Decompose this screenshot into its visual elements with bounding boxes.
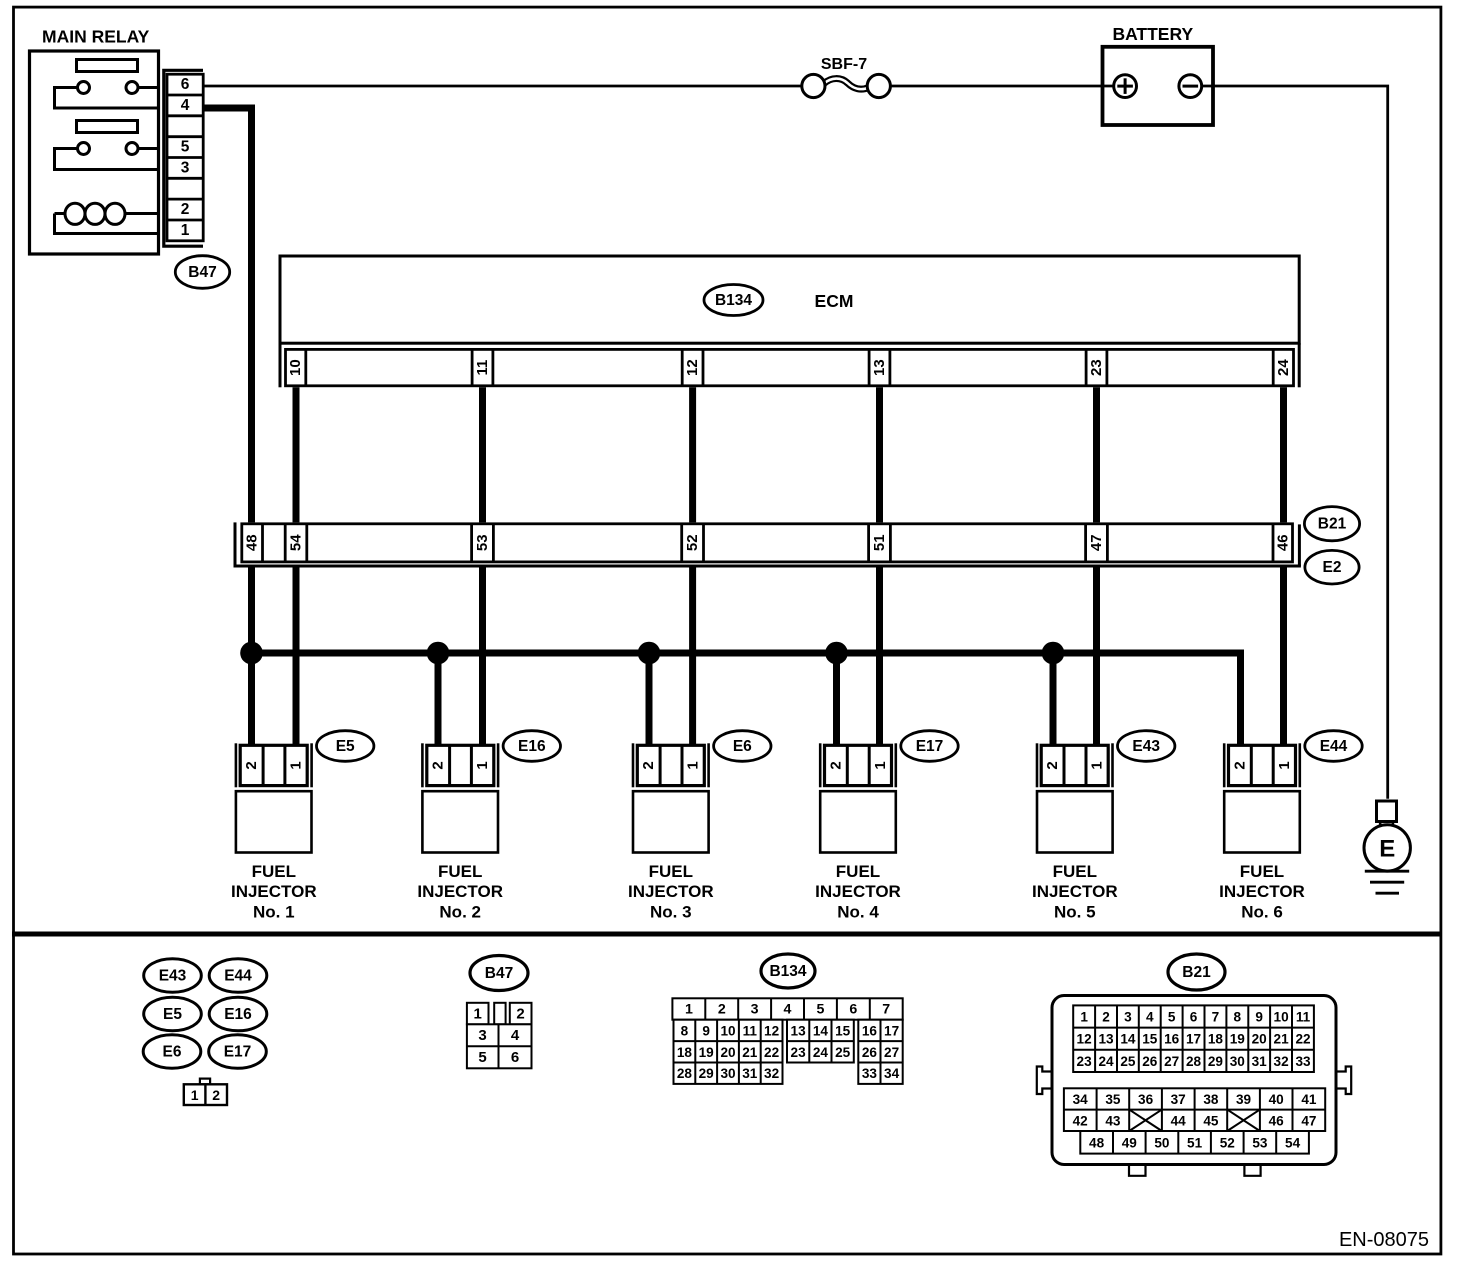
fuel injector No.3 label bbox=[628, 862, 714, 922]
svg-text:1: 1 bbox=[1276, 761, 1293, 769]
B134 pinout grid bbox=[672, 998, 902, 1084]
svg-text:2: 2 bbox=[827, 761, 844, 769]
svg-text:11: 11 bbox=[474, 360, 491, 376]
svg-text:1: 1 bbox=[181, 222, 190, 239]
wire from connector pin 47 to injector No.5 pin 1 bbox=[1093, 568, 1100, 746]
svg-text:19: 19 bbox=[699, 1045, 715, 1060]
svg-text:No. 1: No. 1 bbox=[253, 903, 295, 922]
svg-text:5: 5 bbox=[1168, 1010, 1176, 1025]
legend oval E5 bbox=[144, 997, 202, 1031]
wire from connector pin 52 to injector No.3 pin 1 bbox=[689, 568, 696, 746]
legend oval E43 bbox=[144, 959, 202, 993]
oval label B21 bbox=[1304, 507, 1359, 541]
legend oval B47 bbox=[470, 956, 528, 991]
oval label E2 bbox=[1305, 550, 1359, 584]
svg-text:FUEL: FUEL bbox=[252, 862, 296, 881]
junction dot 3 bbox=[638, 642, 661, 665]
svg-text:6: 6 bbox=[849, 1002, 857, 1018]
svg-text:15: 15 bbox=[835, 1023, 851, 1038]
svg-text:B134: B134 bbox=[715, 292, 752, 309]
svg-text:24: 24 bbox=[1098, 1054, 1114, 1069]
B21 bottom tab 2 bbox=[1244, 1165, 1260, 1176]
svg-text:INJECTOR: INJECTOR bbox=[231, 882, 317, 901]
svg-text:42: 42 bbox=[1073, 1113, 1089, 1128]
svg-text:46: 46 bbox=[1269, 1113, 1285, 1128]
svg-text:E2: E2 bbox=[1323, 559, 1342, 576]
svg-text:12: 12 bbox=[684, 359, 701, 376]
svg-text:4: 4 bbox=[784, 1002, 792, 1018]
svg-text:24: 24 bbox=[1275, 359, 1292, 376]
battery box bbox=[1103, 47, 1214, 125]
svg-text:52: 52 bbox=[684, 534, 701, 551]
fuel injector No.4 body bbox=[820, 791, 896, 852]
fuel injector No.1 label bbox=[231, 862, 317, 922]
svg-text:48: 48 bbox=[1089, 1135, 1105, 1150]
ECM connector row side walls bbox=[279, 343, 282, 387]
svg-text:43: 43 bbox=[1105, 1113, 1121, 1128]
svg-text:53: 53 bbox=[474, 534, 491, 551]
relay coil bbox=[55, 203, 161, 233]
svg-text:31: 31 bbox=[1252, 1054, 1268, 1069]
svg-text:25: 25 bbox=[835, 1045, 851, 1060]
fuel injector No.6 connector side walls bbox=[1224, 743, 1300, 787]
ECM box bbox=[280, 256, 1299, 343]
svg-text:INJECTOR: INJECTOR bbox=[417, 882, 503, 901]
wire from fuse to battery bbox=[890, 85, 1113, 88]
B47 pinout grid bbox=[467, 1003, 532, 1069]
wire from ECM pin 13 down bbox=[876, 387, 883, 522]
ECM pin 10 cell bbox=[304, 349, 307, 385]
svg-text:FUEL: FUEL bbox=[1240, 862, 1284, 881]
legend oval E16 bbox=[209, 997, 267, 1031]
svg-text:INJECTOR: INJECTOR bbox=[628, 882, 714, 901]
fuel injector No.1 connector side walls bbox=[236, 743, 312, 787]
svg-text:INJECTOR: INJECTOR bbox=[1219, 882, 1305, 901]
svg-text:6: 6 bbox=[181, 76, 190, 93]
svg-text:15: 15 bbox=[1142, 1032, 1158, 1047]
svg-text:B47: B47 bbox=[188, 264, 216, 281]
fuel injector No.4 label bbox=[815, 862, 901, 922]
svg-text:29: 29 bbox=[1208, 1054, 1224, 1069]
svg-text:16: 16 bbox=[862, 1023, 878, 1038]
svg-text:54: 54 bbox=[288, 534, 305, 551]
svg-text:3: 3 bbox=[478, 1027, 486, 1044]
svg-text:3: 3 bbox=[1124, 1010, 1132, 1025]
svg-text:52: 52 bbox=[1220, 1135, 1236, 1150]
injector connector pinout tab bbox=[200, 1079, 210, 1085]
relay contact 1 terminal circles bbox=[78, 82, 90, 94]
oval label E44 bbox=[1305, 731, 1362, 762]
svg-text:1: 1 bbox=[1089, 761, 1106, 769]
svg-text:30: 30 bbox=[1230, 1054, 1245, 1069]
oval label E5 bbox=[317, 731, 374, 762]
svg-text:22: 22 bbox=[1295, 1032, 1311, 1047]
relay contact 1 wiring bbox=[55, 88, 161, 109]
fuel injector No.1 pin box bbox=[240, 745, 307, 785]
fuel injector No.3 body bbox=[633, 791, 709, 852]
svg-text:22: 22 bbox=[764, 1045, 780, 1060]
fuel injector No.2 pin box bbox=[427, 745, 494, 785]
svg-text:8: 8 bbox=[681, 1023, 689, 1038]
svg-text:34: 34 bbox=[884, 1066, 900, 1081]
svg-text:B47: B47 bbox=[485, 965, 513, 982]
oval label E43 bbox=[1118, 731, 1175, 762]
wire from connector pin 48 to bus junction and injector No.1 pin 2 bbox=[248, 568, 255, 746]
bus drop wire to injector No.3 pin 2 bbox=[646, 653, 653, 745]
svg-text:18: 18 bbox=[1208, 1032, 1224, 1047]
wire from connector pin 46 to injector No.6 pin 1 bbox=[1280, 568, 1287, 746]
svg-text:13: 13 bbox=[1098, 1032, 1114, 1047]
svg-text:2: 2 bbox=[640, 761, 657, 769]
svg-text:2: 2 bbox=[1231, 761, 1248, 769]
svg-text:23: 23 bbox=[1077, 1054, 1093, 1069]
svg-text:B21: B21 bbox=[1182, 964, 1211, 981]
svg-text:38: 38 bbox=[1203, 1092, 1219, 1107]
wire from connector pin 51 to injector No.4 pin 1 bbox=[876, 568, 883, 746]
svg-text:2: 2 bbox=[718, 1002, 726, 1018]
fuel injector No.3 connector side walls bbox=[633, 743, 709, 787]
svg-text:E17: E17 bbox=[916, 738, 944, 755]
svg-text:No. 3: No. 3 bbox=[650, 903, 692, 922]
legend oval E44 bbox=[209, 959, 267, 993]
svg-text:30: 30 bbox=[720, 1066, 735, 1081]
oval label E16 bbox=[503, 731, 560, 762]
B21 right tab bbox=[1336, 1067, 1351, 1095]
svg-text:53: 53 bbox=[1252, 1135, 1268, 1150]
svg-text:E6: E6 bbox=[163, 1044, 182, 1061]
connector pin 52 cell bbox=[680, 524, 683, 562]
svg-text:No. 6: No. 6 bbox=[1241, 903, 1283, 922]
ground circle E bbox=[1364, 825, 1410, 871]
svg-text:E5: E5 bbox=[336, 738, 355, 755]
svg-text:1: 1 bbox=[685, 1002, 693, 1018]
wire from relay pin 6 to fuse SBF-7 bbox=[203, 85, 802, 88]
ECM pin 13 cell bbox=[868, 349, 871, 385]
wire from connector pin 53 to injector No.2 pin 1 bbox=[479, 568, 486, 746]
svg-text:4: 4 bbox=[511, 1027, 520, 1044]
svg-text:32: 32 bbox=[764, 1066, 780, 1081]
ECM connector row box bbox=[286, 349, 1294, 385]
svg-text:21: 21 bbox=[1274, 1032, 1290, 1047]
fuel injector No.1 body bbox=[236, 791, 312, 852]
svg-text:3: 3 bbox=[181, 159, 190, 176]
svg-text:1: 1 bbox=[685, 761, 702, 769]
svg-text:45: 45 bbox=[1203, 1113, 1219, 1128]
relay contact 2 wiring bbox=[55, 149, 161, 170]
connector pin 48 cell bbox=[261, 524, 264, 562]
svg-text:E5: E5 bbox=[163, 1006, 182, 1023]
fuel injector No.3 pin box bbox=[637, 745, 704, 785]
svg-text:6: 6 bbox=[1190, 1010, 1198, 1025]
svg-text:51: 51 bbox=[1187, 1135, 1203, 1150]
junction dot 1 bbox=[240, 642, 263, 665]
svg-text:E: E bbox=[1379, 836, 1395, 863]
svg-text:13: 13 bbox=[871, 359, 888, 376]
fuel injector No.4 pin box bbox=[825, 745, 892, 785]
svg-text:1: 1 bbox=[474, 1006, 482, 1023]
svg-text:4: 4 bbox=[1146, 1010, 1154, 1025]
svg-text:E6: E6 bbox=[733, 738, 752, 755]
svg-text:27: 27 bbox=[1164, 1054, 1179, 1069]
fuel injector No.5 connector side walls bbox=[1037, 743, 1113, 787]
ground neck lines bbox=[1379, 822, 1382, 827]
svg-text:No. 2: No. 2 bbox=[439, 903, 481, 922]
wire from ECM pin 12 down bbox=[689, 387, 696, 522]
svg-text:41: 41 bbox=[1301, 1092, 1317, 1107]
wire from ECM pin 24 down bbox=[1280, 387, 1287, 522]
svg-text:8: 8 bbox=[1234, 1010, 1242, 1025]
thick wire from relay pin 4 down to connector pin 48 bbox=[203, 108, 251, 522]
fuel injector No.6 pin box bbox=[1229, 745, 1296, 785]
svg-text:E44: E44 bbox=[224, 968, 252, 985]
oval label B134 bbox=[704, 285, 763, 316]
svg-text:4: 4 bbox=[181, 97, 190, 114]
svg-text:19: 19 bbox=[1230, 1032, 1246, 1047]
svg-text:36: 36 bbox=[1138, 1092, 1154, 1107]
fuel injector No.6 body bbox=[1224, 791, 1300, 852]
B21 pinout grid bottom bbox=[1080, 1131, 1309, 1154]
svg-text:33: 33 bbox=[1295, 1054, 1311, 1069]
svg-text:E16: E16 bbox=[518, 738, 546, 755]
connector pin 51 cell bbox=[867, 524, 870, 562]
connector pin 47 cell bbox=[1084, 524, 1087, 562]
junction dot 5 bbox=[1042, 642, 1065, 665]
svg-text:28: 28 bbox=[677, 1066, 693, 1081]
relay contact bar 2 bbox=[77, 121, 138, 133]
svg-text:23: 23 bbox=[1088, 359, 1105, 376]
svg-text:47: 47 bbox=[1301, 1113, 1316, 1128]
wire from battery to ground drop bbox=[1202, 86, 1388, 799]
svg-text:10: 10 bbox=[1274, 1010, 1289, 1025]
svg-text:12: 12 bbox=[764, 1023, 780, 1038]
svg-text:2: 2 bbox=[181, 201, 190, 218]
svg-text:24: 24 bbox=[813, 1045, 829, 1060]
fuel injector No.2 connector side walls bbox=[422, 743, 498, 787]
svg-text:EN-08075: EN-08075 bbox=[1339, 1229, 1429, 1251]
svg-text:31: 31 bbox=[742, 1066, 758, 1081]
injector connector pinout box bbox=[184, 1084, 227, 1105]
svg-text:1: 1 bbox=[288, 761, 305, 769]
svg-text:E43: E43 bbox=[159, 968, 187, 985]
svg-text:17: 17 bbox=[1186, 1032, 1201, 1047]
bus drop wire to injector No.2 pin 2 bbox=[435, 653, 442, 745]
svg-text:33: 33 bbox=[862, 1066, 878, 1081]
B21 bottom tab 1 bbox=[1129, 1165, 1146, 1176]
svg-text:E16: E16 bbox=[224, 1006, 252, 1023]
svg-text:2: 2 bbox=[243, 761, 260, 769]
svg-text:7: 7 bbox=[882, 1002, 890, 1018]
svg-text:1: 1 bbox=[474, 761, 491, 769]
svg-text:ECM: ECM bbox=[815, 291, 854, 311]
svg-text:2: 2 bbox=[430, 761, 447, 769]
svg-text:34: 34 bbox=[1073, 1092, 1089, 1107]
wire from ECM pin 23 down bbox=[1093, 387, 1100, 522]
section divider line bbox=[12, 932, 1441, 937]
svg-text:35: 35 bbox=[1105, 1092, 1121, 1107]
ECM pin 24 cell bbox=[1272, 349, 1275, 385]
relay contact 2 terminal circles bbox=[78, 143, 90, 155]
svg-text:9: 9 bbox=[1255, 1010, 1263, 1025]
junction dot 4 bbox=[825, 642, 848, 665]
fuel injector No.2 body bbox=[422, 791, 498, 852]
svg-text:40: 40 bbox=[1269, 1092, 1284, 1107]
svg-text:27: 27 bbox=[884, 1045, 899, 1060]
svg-text:25: 25 bbox=[1120, 1054, 1136, 1069]
svg-text:No. 4: No. 4 bbox=[837, 903, 879, 922]
bus drop wire to injector No.5 pin 2 bbox=[1050, 653, 1057, 745]
fuel injector No.2 label bbox=[417, 862, 503, 922]
svg-text:37: 37 bbox=[1171, 1092, 1186, 1107]
svg-text:47: 47 bbox=[1088, 534, 1105, 551]
svg-text:2: 2 bbox=[212, 1087, 220, 1103]
svg-text:18: 18 bbox=[677, 1045, 693, 1060]
ECM pin 12 cell bbox=[681, 349, 684, 385]
svg-text:9: 9 bbox=[702, 1023, 710, 1038]
legend oval B21 bbox=[1168, 954, 1225, 990]
legend oval E17 bbox=[209, 1035, 267, 1069]
svg-text:20: 20 bbox=[720, 1045, 735, 1060]
svg-text:2: 2 bbox=[1044, 761, 1061, 769]
battery plus terminal bbox=[1114, 75, 1137, 98]
svg-text:INJECTOR: INJECTOR bbox=[1032, 882, 1118, 901]
svg-text:29: 29 bbox=[699, 1066, 715, 1081]
svg-text:21: 21 bbox=[742, 1045, 758, 1060]
svg-text:INJECTOR: INJECTOR bbox=[815, 882, 901, 901]
wire from connector pin 54 to injector No.1 pin 1 bbox=[293, 568, 300, 746]
svg-text:E17: E17 bbox=[224, 1044, 252, 1061]
legend oval B134 bbox=[761, 954, 815, 988]
svg-text:11: 11 bbox=[743, 1023, 758, 1038]
ground terminal square bbox=[1377, 801, 1397, 822]
svg-text:16: 16 bbox=[1164, 1032, 1180, 1047]
svg-text:1: 1 bbox=[191, 1087, 199, 1103]
svg-text:11: 11 bbox=[1296, 1010, 1311, 1025]
connector pin 46 cell bbox=[1272, 524, 1275, 562]
svg-text:23: 23 bbox=[791, 1045, 807, 1060]
svg-text:14: 14 bbox=[813, 1023, 829, 1038]
fuel injector No.5 pin box bbox=[1041, 745, 1108, 785]
connector B47 pin boxes bbox=[167, 74, 203, 241]
relay contact bar 1 bbox=[77, 60, 138, 72]
junction dot 2 bbox=[427, 642, 450, 665]
svg-text:20: 20 bbox=[1252, 1032, 1267, 1047]
B21 connector outline bbox=[1052, 996, 1336, 1165]
main relay box bbox=[30, 51, 159, 254]
middle connector B21/E2 outer shell bbox=[234, 522, 1301, 566]
battery minus terminal bbox=[1179, 75, 1202, 98]
connector pin 53 cell bbox=[470, 524, 473, 562]
svg-text:12: 12 bbox=[1077, 1032, 1093, 1047]
svg-text:39: 39 bbox=[1236, 1092, 1252, 1107]
wire from ECM pin 10 down bbox=[293, 387, 300, 522]
svg-text:54: 54 bbox=[1285, 1135, 1301, 1150]
ground hatch lines bbox=[1365, 871, 1409, 893]
svg-text:1: 1 bbox=[1080, 1010, 1088, 1025]
B21 left tab bbox=[1037, 1067, 1052, 1095]
svg-text:No. 5: No. 5 bbox=[1054, 903, 1096, 922]
B21 pinout grid top bbox=[1073, 1005, 1314, 1072]
svg-text:49: 49 bbox=[1122, 1135, 1138, 1150]
oval label B47 bbox=[175, 256, 229, 289]
svg-text:10: 10 bbox=[720, 1023, 735, 1038]
svg-text:10: 10 bbox=[287, 359, 304, 376]
fuse SBF-7 symbol bbox=[824, 79, 869, 90]
ground bus wire bbox=[252, 653, 1241, 745]
svg-text:48: 48 bbox=[244, 534, 261, 551]
svg-text:28: 28 bbox=[1186, 1054, 1202, 1069]
svg-text:2: 2 bbox=[1102, 1010, 1110, 1025]
svg-text:3: 3 bbox=[751, 1002, 759, 1018]
svg-text:17: 17 bbox=[884, 1023, 899, 1038]
svg-text:B21: B21 bbox=[1318, 516, 1347, 533]
svg-text:6: 6 bbox=[511, 1049, 519, 1066]
legend oval E6 bbox=[143, 1035, 201, 1069]
svg-text:14: 14 bbox=[1120, 1032, 1136, 1047]
oval label E17 bbox=[901, 731, 958, 762]
svg-text:51: 51 bbox=[871, 534, 888, 551]
svg-text:MAIN RELAY: MAIN RELAY bbox=[42, 27, 150, 47]
ECM pin 11 cell bbox=[471, 349, 474, 385]
middle connector row box bbox=[242, 524, 1293, 562]
svg-text:13: 13 bbox=[791, 1023, 807, 1038]
svg-text:7: 7 bbox=[1212, 1010, 1220, 1025]
fuel injector No.4 connector side walls bbox=[820, 743, 896, 787]
fuel injector No.5 body bbox=[1037, 791, 1113, 852]
svg-text:5: 5 bbox=[181, 139, 190, 156]
svg-text:BATTERY: BATTERY bbox=[1112, 24, 1193, 44]
connector pin 54 cell bbox=[284, 524, 287, 562]
svg-text:44: 44 bbox=[1171, 1113, 1187, 1128]
svg-text:FUEL: FUEL bbox=[438, 862, 482, 881]
oval label E6 bbox=[714, 731, 771, 762]
fuel injector No.5 label bbox=[1032, 862, 1118, 922]
svg-text:E44: E44 bbox=[1320, 738, 1348, 755]
svg-text:5: 5 bbox=[816, 1002, 824, 1018]
svg-text:26: 26 bbox=[1142, 1054, 1158, 1069]
bus drop wire to injector No.4 pin 2 bbox=[833, 653, 840, 745]
svg-text:FUEL: FUEL bbox=[836, 862, 880, 881]
fuel injector No.6 label bbox=[1219, 862, 1305, 922]
B21 pinout grid middle bbox=[1064, 1088, 1325, 1131]
svg-text:2: 2 bbox=[516, 1006, 524, 1023]
svg-text:FUEL: FUEL bbox=[1053, 862, 1097, 881]
svg-text:B134: B134 bbox=[769, 963, 806, 980]
svg-text:46: 46 bbox=[1274, 534, 1291, 551]
svg-text:SBF-7: SBF-7 bbox=[821, 56, 867, 73]
svg-text:26: 26 bbox=[862, 1045, 878, 1060]
wire from ECM pin 11 down bbox=[479, 387, 486, 522]
svg-text:32: 32 bbox=[1274, 1054, 1290, 1069]
ECM pin 23 cell bbox=[1085, 349, 1088, 385]
svg-text:E43: E43 bbox=[1132, 738, 1160, 755]
svg-text:50: 50 bbox=[1154, 1135, 1169, 1150]
connector B47 shell bbox=[164, 70, 203, 246]
svg-text:5: 5 bbox=[478, 1049, 486, 1066]
svg-text:FUEL: FUEL bbox=[649, 862, 693, 881]
svg-text:1: 1 bbox=[872, 761, 889, 769]
